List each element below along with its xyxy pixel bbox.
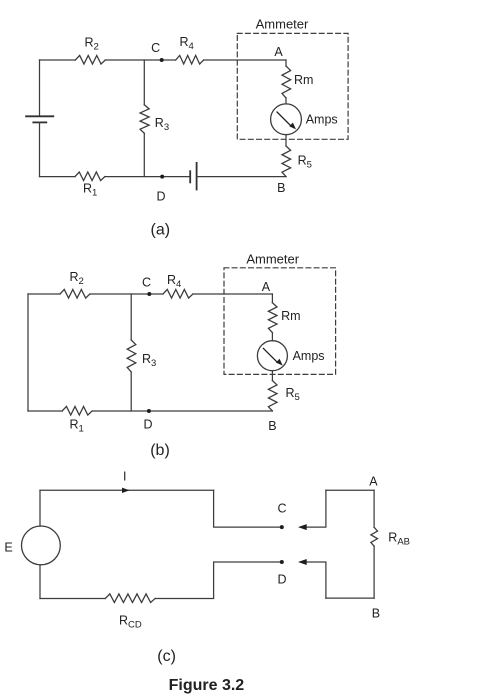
resistor R1 fig(b) zigzag [62, 406, 92, 415]
battery B1 fig(a): long positive plate [26, 115, 53, 117]
resistor R2 fig(a) zigzag [75, 55, 105, 64]
wire: fig(c) step down to node C lead [214, 490, 282, 527]
wire: fig(b) middle branch C to R3 [130, 294, 132, 340]
probe arrow to D fig(c) [298, 559, 307, 565]
wire: fig(a) Rm to meter [285, 98, 287, 104]
svg-text:D: D [277, 573, 286, 587]
meter M1 fig(b) needle [263, 348, 282, 365]
meter M1 fig(a) needle [277, 112, 296, 129]
wire: fig(a) middle branch C to R3 [143, 60, 145, 105]
svg-text:R4: R4 [180, 35, 194, 52]
svg-text:RCD: RCD [119, 614, 142, 631]
svg-text:R3: R3 [155, 116, 169, 133]
svg-text:R1: R1 [83, 182, 97, 199]
svg-text:Rm: Rm [294, 73, 313, 87]
node D fig(c) terminal dot [280, 560, 284, 564]
probe arrow to C fig(c) [298, 524, 307, 530]
wire: fig(a) top rail left of R2 [40, 59, 76, 61]
source E fig(c) circle [22, 526, 61, 565]
wire: fig(a) middle branch R3 to D [143, 133, 145, 176]
svg-text:D: D [156, 190, 165, 204]
wire: fig(c) top rail with current direction [40, 489, 214, 491]
node D fig(b) junction dot [147, 409, 151, 413]
meter M1 fig(b) circle [257, 341, 287, 371]
resistor Rm fig(a) zigzag [282, 66, 291, 98]
svg-text:Rm: Rm [281, 309, 300, 323]
wire: fig(a) top rail R2 to R4 [105, 59, 175, 61]
wire: fig(a) meter to R5 [285, 135, 287, 146]
svg-text:A: A [274, 45, 283, 59]
wire: fig(a) corner A down to Rm [285, 60, 287, 66]
svg-text:(c): (c) [157, 648, 176, 665]
wire: fig(b) bottom rail left of R1 [28, 410, 62, 412]
wire: fig(c) bottom rail RCD to step, up to node D lead [155, 562, 282, 599]
wire: fig(b) bottom rail R1 to B [92, 410, 272, 412]
resistor R2 fig(b) zigzag [60, 289, 90, 298]
svg-text:B: B [268, 419, 276, 433]
resistor R5 fig(a) zigzag [282, 146, 291, 177]
svg-text:R5: R5 [298, 154, 312, 171]
wire: fig(b) Rm to meter [271, 333, 273, 341]
svg-text:C: C [151, 41, 160, 55]
resistor R4 fig(a) zigzag [176, 55, 204, 64]
resistor Rm fig(b) zigzag [268, 303, 277, 333]
svg-text:R2: R2 [70, 270, 84, 287]
svg-text:E: E [4, 541, 12, 555]
resistor R5 fig(b) zigzag [268, 381, 277, 411]
wire: fig(a) bottom rail battery B2 to B [197, 176, 286, 178]
svg-text:I: I [123, 470, 126, 484]
node C fig(a) junction dot [160, 58, 164, 62]
wire: fig(c) left vertical top (source to top rail) [39, 490, 41, 526]
wire: fig(c) left vertical bottom (source to bottom rail) [39, 565, 41, 599]
svg-text:B: B [277, 181, 285, 195]
ammeter dashed enclosure fig(b) [224, 268, 336, 375]
svg-text:B: B [372, 607, 380, 621]
svg-text:Amps: Amps [293, 349, 325, 363]
svg-text:Figure 3.2: Figure 3.2 [169, 677, 245, 694]
wire: fig(c) bracket lower probe stem [305, 562, 326, 598]
wire: fig(b) left vertical [27, 294, 29, 411]
svg-text:A: A [369, 475, 378, 489]
wire: fig(b) top rail R4 to corner A [193, 293, 273, 295]
svg-text:C: C [142, 276, 151, 290]
svg-text:(a): (a) [151, 222, 171, 239]
wire: fig(b) corner A down to Rm [271, 294, 273, 303]
resistor R4 fig(b) zigzag [163, 289, 193, 298]
node C fig(c) terminal dot [280, 525, 284, 529]
wire: fig(b) middle branch R3 to D [130, 372, 132, 411]
wire: fig(a) left vertical top segment [39, 60, 41, 116]
svg-text:C: C [277, 502, 286, 516]
wire: fig(b) meter to R5 [271, 371, 273, 381]
battery B2 fig(a): long plate [196, 163, 198, 190]
node C fig(b) junction dot [147, 292, 151, 296]
battery B1 fig(a): short negative plate [33, 121, 46, 123]
svg-text:R2: R2 [85, 36, 99, 53]
wire: fig(c) bottom rail left of RCD [40, 598, 105, 600]
resistor R1 fig(a) zigzag [75, 172, 105, 181]
wire: fig(a) bottom rail left of R1 [40, 176, 76, 178]
wire: fig(a) top rail R4 to corner A [204, 59, 286, 61]
ammeter dashed enclosure fig(a) [237, 33, 348, 139]
wire: fig(b) top rail left of R2 [28, 293, 60, 295]
wire: fig(c) bracket bottom horizontal [326, 597, 374, 599]
svg-text:A: A [262, 280, 271, 294]
resistor RAB fig(c) zigzag [371, 527, 378, 546]
wire: fig(c) bracket top horizontal [326, 489, 374, 491]
wire: fig(b) top rail R2 to R4 [90, 293, 163, 295]
resistor R3 fig(b) zigzag [127, 340, 136, 372]
resistor R3 fig(a) zigzag [140, 105, 149, 133]
svg-text:R4: R4 [167, 273, 181, 290]
svg-text:Ammeter: Ammeter [246, 252, 299, 267]
resistor RCD fig(c) zigzag [105, 594, 155, 603]
svg-text:R1: R1 [70, 418, 84, 435]
svg-text:Amps: Amps [306, 113, 338, 127]
svg-text:D: D [143, 418, 152, 432]
svg-text:R3: R3 [142, 352, 156, 369]
node D fig(a) junction dot [160, 175, 164, 179]
svg-text:Ammeter: Ammeter [256, 17, 309, 32]
svg-text:RAB: RAB [388, 531, 410, 548]
wire: fig(a) left vertical bottom segment [39, 122, 41, 176]
svg-text:R5: R5 [286, 386, 300, 403]
current arrow I fig(c) [122, 488, 130, 493]
svg-text:(b): (b) [150, 442, 170, 459]
wire: fig(c) bracket upper probe stem [305, 490, 326, 527]
wire: fig(c) bracket right vertical upper (A to RAB) [373, 490, 375, 527]
wire: fig(c) bracket right vertical lower (RAB to B) [373, 546, 375, 598]
battery B2 fig(a): short plate [189, 171, 191, 182]
wire: fig(a) bottom rail R1 to battery B2 [105, 176, 190, 178]
meter M1 fig(a) circle [271, 104, 302, 135]
